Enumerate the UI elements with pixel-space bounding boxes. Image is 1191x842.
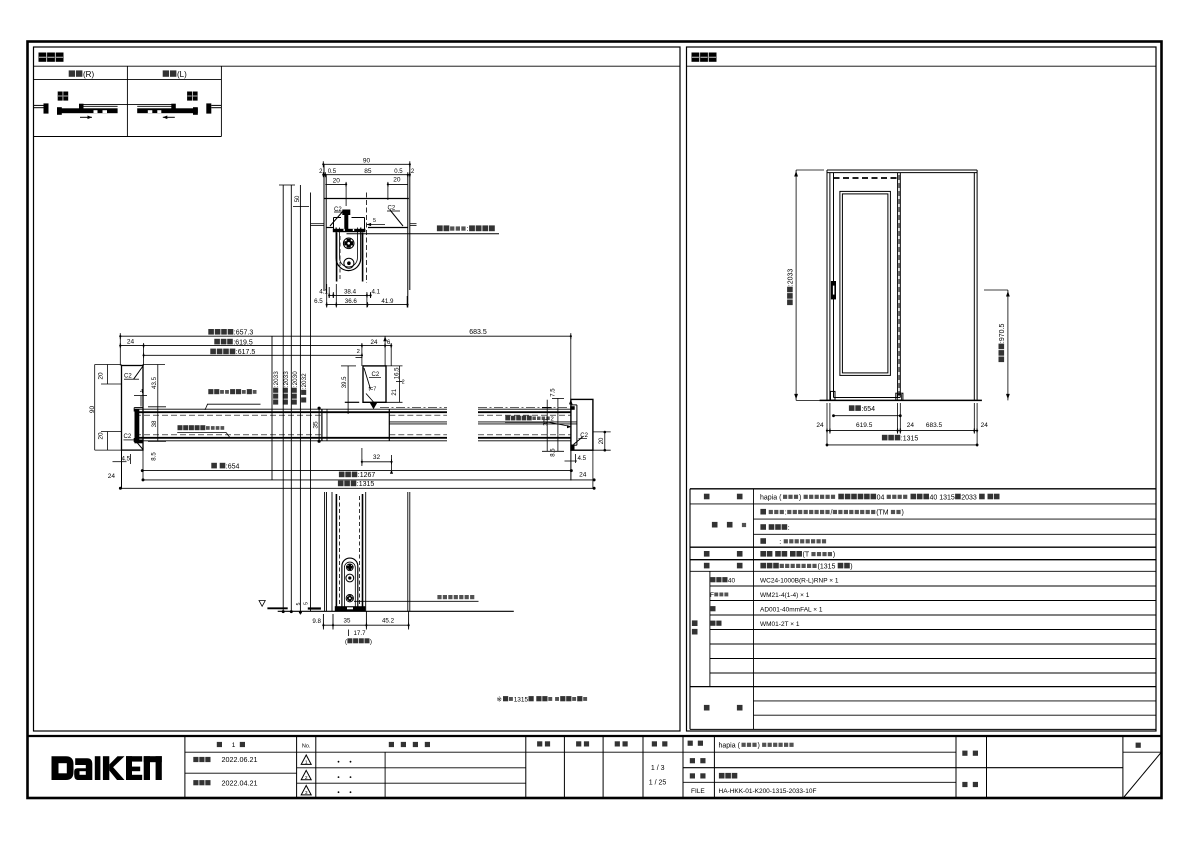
svg-text:): )	[850, 563, 852, 570]
svg-text::2030: :2030	[292, 371, 299, 387]
svg-text::: :	[785, 510, 787, 517]
svg-text:5: 5	[304, 602, 310, 605]
svg-text:4.1: 4.1	[372, 289, 381, 296]
svg-text:35: 35	[344, 618, 351, 625]
svg-text:38: 38	[151, 420, 158, 427]
svg-text:90: 90	[89, 405, 96, 413]
svg-text:32: 32	[373, 454, 381, 461]
svg-text::: :	[467, 224, 469, 233]
svg-text:C2: C2	[580, 433, 588, 439]
svg-text:6: 6	[387, 339, 391, 346]
svg-text:): )	[833, 552, 835, 559]
svg-text:(L): (L)	[177, 70, 187, 79]
svg-text:1315: 1315	[514, 696, 529, 703]
svg-text:40 1315: 40 1315	[930, 494, 955, 501]
svg-text:85: 85	[364, 168, 372, 175]
svg-text::2033: :2033	[788, 269, 795, 287]
svg-text:2: 2	[551, 416, 554, 422]
svg-text:): )	[370, 638, 372, 645]
svg-text::1315: :1315	[901, 435, 919, 442]
svg-text:No.: No.	[302, 744, 311, 750]
svg-text:683.5: 683.5	[469, 329, 487, 336]
svg-text:6.5: 6.5	[314, 298, 323, 305]
svg-text:683.5: 683.5	[926, 422, 943, 429]
svg-text::654: :654	[861, 406, 875, 413]
svg-text:4.5: 4.5	[122, 455, 131, 462]
svg-text::2033: :2033	[283, 371, 290, 387]
svg-text:2022.06.21: 2022.06.21	[222, 755, 258, 764]
svg-text:16.5: 16.5	[394, 367, 400, 379]
svg-text:2033: 2033	[961, 494, 977, 501]
svg-text::: :	[788, 525, 790, 532]
svg-text:): )	[799, 494, 801, 501]
svg-text:40: 40	[728, 577, 736, 584]
svg-text::657.3: :657.3	[234, 330, 254, 337]
svg-text::1267: :1267	[358, 472, 376, 479]
svg-text:20: 20	[393, 176, 401, 183]
svg-text:C2: C2	[124, 434, 132, 440]
svg-text:38.4: 38.4	[344, 289, 357, 296]
svg-text:41.9: 41.9	[381, 298, 394, 305]
svg-text:※: ※	[497, 696, 503, 703]
svg-text:C2: C2	[124, 374, 132, 380]
svg-text:8.5: 8.5	[152, 452, 158, 461]
svg-text:(R): (R)	[83, 70, 94, 79]
svg-text:90: 90	[363, 157, 371, 164]
svg-text:24: 24	[371, 339, 378, 346]
svg-text:1: 1	[305, 760, 308, 766]
svg-text:24: 24	[127, 339, 135, 346]
svg-text::2033: :2033	[273, 371, 280, 387]
svg-text:35: 35	[544, 418, 550, 425]
svg-text:8.5: 8.5	[551, 448, 557, 457]
svg-text:1: 1	[232, 742, 236, 749]
svg-text:WM21-4(1-4) × 1: WM21-4(1-4) × 1	[760, 592, 810, 599]
svg-text:20: 20	[98, 372, 105, 380]
svg-text:AD001-40mmFAL × 1: AD001-40mmFAL × 1	[760, 606, 823, 613]
svg-text:3: 3	[305, 790, 308, 796]
svg-text:43.5: 43.5	[151, 376, 158, 389]
svg-text:hapia (: hapia (	[719, 742, 741, 749]
svg-text:HA-HKK-01-K200-1315-2033-10F: HA-HKK-01-K200-1315-2033-10F	[719, 788, 817, 795]
svg-text::617.5: :617.5	[236, 349, 256, 356]
svg-text:1 / 3: 1 / 3	[651, 765, 665, 772]
svg-text:t=7: t=7	[369, 387, 377, 393]
svg-text:50: 50	[295, 195, 301, 202]
svg-text:(T: (T	[803, 552, 810, 559]
svg-text:24: 24	[907, 422, 915, 429]
svg-text:5: 5	[373, 218, 376, 224]
svg-text::970.5: :970.5	[999, 324, 1006, 344]
svg-text:36.6: 36.6	[345, 298, 358, 305]
svg-text:5: 5	[296, 602, 302, 605]
svg-text:2022.04.21: 2022.04.21	[222, 778, 258, 787]
svg-text:4.5: 4.5	[578, 455, 587, 462]
svg-text:): )	[758, 742, 760, 749]
svg-text::1315: :1315	[357, 481, 375, 488]
svg-text:24: 24	[816, 422, 824, 429]
svg-text:20: 20	[98, 432, 105, 440]
svg-text:24: 24	[981, 422, 989, 429]
svg-text:1 / 25: 1 / 25	[649, 779, 667, 786]
svg-text:39.5: 39.5	[342, 376, 348, 388]
svg-text:/: /	[831, 510, 833, 517]
svg-text:7.5: 7.5	[551, 388, 557, 397]
svg-text:9.8: 9.8	[312, 618, 321, 625]
svg-text:20: 20	[333, 177, 341, 184]
svg-text:2: 2	[305, 775, 308, 781]
svg-text:F: F	[710, 592, 714, 599]
svg-text:04: 04	[877, 494, 885, 501]
svg-text:FILE: FILE	[691, 788, 705, 795]
svg-text:(1315: (1315	[818, 563, 836, 570]
svg-text:hapia (: hapia (	[760, 494, 782, 501]
svg-text:(TM: (TM	[876, 510, 889, 517]
svg-text:20: 20	[599, 437, 605, 444]
svg-text:45.2: 45.2	[382, 618, 395, 625]
svg-text:35: 35	[313, 421, 320, 429]
svg-text:C2: C2	[372, 372, 380, 378]
svg-text:2: 2	[402, 379, 405, 385]
svg-text::: :	[779, 539, 781, 546]
svg-text::619.5: :619.5	[233, 339, 253, 346]
svg-text:2: 2	[357, 349, 360, 355]
svg-text:0.5: 0.5	[394, 169, 403, 175]
svg-text:WM01-2T × 1: WM01-2T × 1	[760, 621, 800, 628]
svg-text::654: :654	[226, 463, 240, 470]
svg-text:24: 24	[108, 473, 116, 480]
svg-text:619.5: 619.5	[856, 422, 873, 429]
svg-text:C2: C2	[388, 205, 396, 211]
svg-text:21: 21	[392, 388, 398, 395]
svg-text:0.5: 0.5	[328, 169, 337, 175]
svg-text:24: 24	[579, 471, 587, 478]
svg-text::2032: :2032	[301, 373, 308, 389]
svg-text:): )	[902, 510, 904, 517]
svg-text:17.7: 17.7	[353, 630, 366, 637]
svg-text:WC24-1000B(R-L)RNP × 1: WC24-1000B(R-L)RNP × 1	[760, 577, 839, 584]
